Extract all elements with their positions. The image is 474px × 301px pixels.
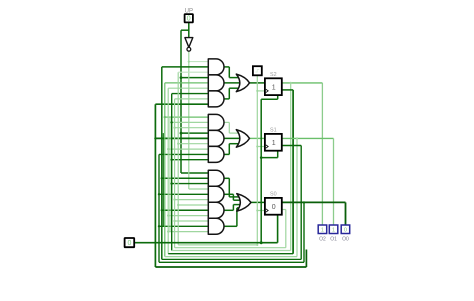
svg-text:S2: S2 <box>270 72 277 78</box>
svg-text:O0: O0 <box>342 237 349 243</box>
svg-text:S0: S0 <box>270 192 277 198</box>
svg-text:1: 1 <box>272 84 276 91</box>
svg-text:1: 1 <box>332 228 335 234</box>
svg-text:0: 0 <box>272 204 276 211</box>
svg-text:0: 0 <box>127 240 131 247</box>
svg-text:O1: O1 <box>330 237 337 243</box>
svg-text:0: 0 <box>187 16 191 23</box>
svg-text:1: 1 <box>272 140 276 147</box>
svg-text:0: 0 <box>344 228 347 234</box>
svg-text:1: 1 <box>321 228 324 234</box>
svg-text:UP: UP <box>185 8 193 14</box>
svg-text:O2: O2 <box>319 237 326 243</box>
svg-text:S1: S1 <box>270 128 277 134</box>
